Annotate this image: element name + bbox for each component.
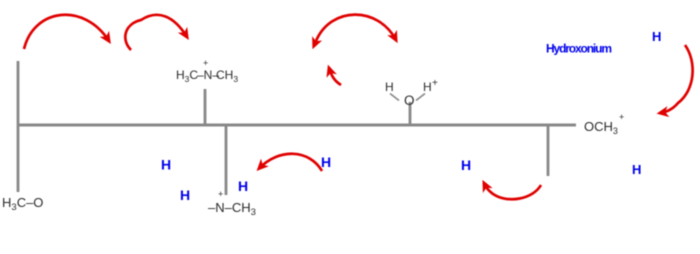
svg-text:H: H [461,157,471,173]
svg-text:H: H [238,178,248,194]
svg-text:CH3: CH3 [216,68,238,84]
svg-text:H3C–O: H3C–O [2,195,43,213]
svg-text:H: H [180,187,190,203]
svg-text:+: + [432,78,438,89]
svg-text:H: H [161,157,171,173]
svg-text:+: + [218,189,223,199]
svg-text:O: O [404,93,415,108]
svg-text:+: + [619,112,624,122]
svg-text:OCH3: OCH3 [584,119,618,136]
svg-text:–N–CH3: –N–CH3 [208,200,256,218]
svg-text:H: H [423,80,432,94]
svg-text:H3C: H3C [176,68,198,84]
svg-text:H: H [321,154,331,170]
svg-text:H: H [652,29,661,44]
svg-text:H: H [632,162,641,177]
svg-text:+: + [203,58,208,68]
svg-text:Hydroxonium: Hydroxonium [546,42,612,56]
svg-text:H: H [385,80,394,94]
